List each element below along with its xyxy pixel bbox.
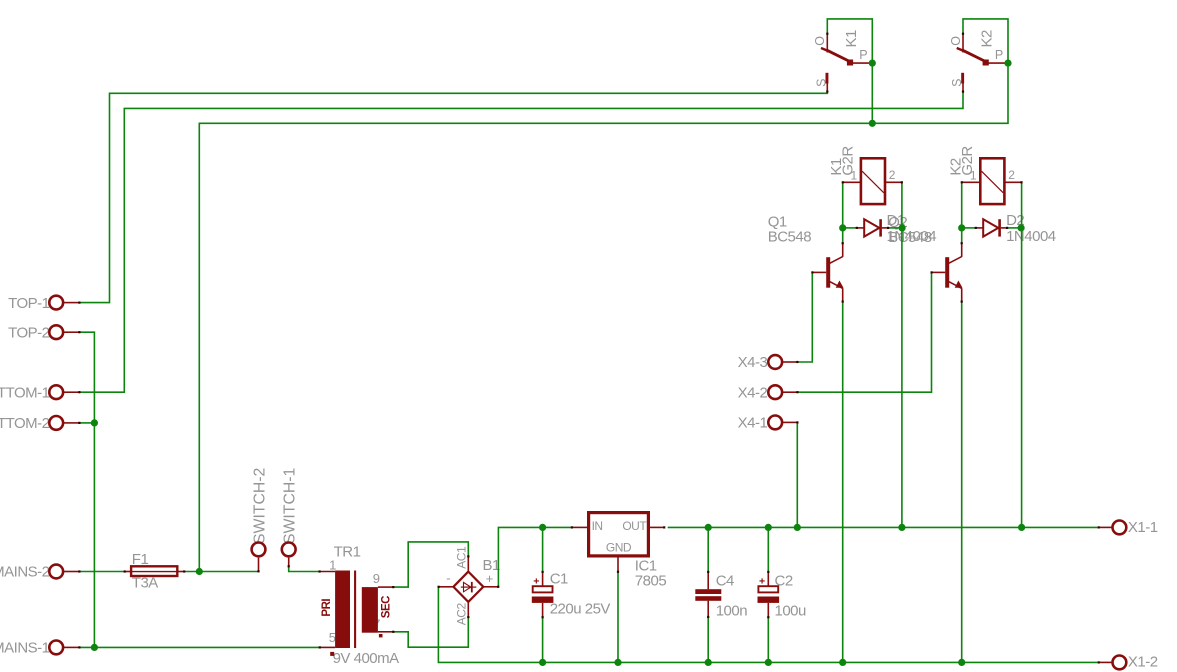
svg-text:X1-1: X1-1 [1128,519,1158,536]
transformer TR1 primary winding [335,571,350,649]
svg-text:100n: 100n [716,603,748,620]
wire Q1 collector to D1 anode node [842,182,844,243]
capacitor C4 plates [695,589,721,594]
svg-text:TR1: TR1 [334,544,361,561]
capacitor C4 leads [707,527,709,572]
svg-text:TOP-1: TOP-1 [8,295,50,312]
wire K1 contact frame O to P [827,19,872,63]
wire net TOP-1: TOP-1 pin up and across to K1 contact S [79,92,827,303]
pin SWITCH-1 [282,543,296,557]
svg-text:O: O [949,36,963,46]
junction K1 contact P [869,60,876,67]
junction D2 anode node [958,224,965,231]
pin SWITCH-2 [252,543,266,557]
svg-text:2: 2 [1008,168,1015,182]
wire X4-1 pin down to +V rail [796,422,798,527]
svg-text:AC2: AC2 [455,603,469,626]
connector pin X4-1 [768,416,782,430]
K2 coil pin 1 stub [962,181,980,183]
svg-text:PRI: PRI [321,599,333,617]
wire net BOTTOM-1: across top to K2 contact S [79,92,963,393]
TR1 core [354,571,356,649]
svg-text:X4-1: X4-1 [738,415,768,432]
Q2 base pin [931,271,945,273]
connector pin TOP-2 [49,325,63,339]
diode D1 [843,227,857,229]
junction D2 cathode node [1018,224,1025,231]
svg-text:P: P [995,48,1003,62]
svg-text:SEC: SEC [380,596,392,618]
svg-text:MAINS-1: MAINS-1 [0,640,50,657]
B1 plus pin stub [483,586,498,588]
capacitor C2 leads [767,527,769,572]
connector pin TOP-1 [49,296,63,310]
Q1 base pin [812,271,826,273]
K2 contact pole line to P [989,62,1006,64]
svg-text:1: 1 [329,558,336,573]
wire SWITCH-1 pin to TR1 pin 1 [289,567,319,572]
K2 contact arm [957,48,963,50]
wire K1 coil pin2 / D1 cathode node down to +V rail [901,182,903,527]
TR1 pin 5 stub [320,646,335,648]
svg-text:C1: C1 [550,570,568,587]
junction K2 coil node / rail [1018,524,1025,531]
svg-text:1: 1 [970,168,977,182]
svg-text:C4: C4 [716,573,734,590]
TR1 pin 5 polarity dot [330,652,334,656]
K1 coil pin 1 stub [843,181,861,183]
svg-text:K2: K2 [979,30,996,48]
svg-text:+: + [486,571,493,586]
fuse F1 [125,571,132,573]
junction X4-1 drop / rail [794,524,801,531]
junction C2 top / rail [765,524,772,531]
Q1 emitter with arrow [830,282,843,289]
wire fuse F1 to SWITCH-2 pin [184,571,259,573]
junction C4 top / rail [705,524,712,531]
wire MAINS-2 pin to fuse F1 [79,571,124,573]
connector pin BOTTOM-1 [49,385,63,399]
wire net fused-mains riser to relay contacts (wire3) [199,63,1008,571]
wire K2 coil pin2 / D2 cathode node down to +V rail [1021,182,1023,527]
svg-text:7805: 7805 [635,573,667,590]
svg-text:OUT: OUT [622,519,647,533]
connector pin X4-2 [768,385,782,399]
TR1 pin 9 stub [378,586,394,588]
B1 AC1 pin stub [467,556,469,571]
connector pin MAINS-1 [49,641,63,655]
IC1 GND pin stub [617,558,619,573]
wire Q2 emitter down to ground rail [961,302,963,663]
junction wire3 / K1 P drop [869,120,876,127]
svg-text:X4-3: X4-3 [738,354,768,371]
connector pin BOTTOM-2 [49,416,63,430]
connector pin X1-2 [1113,656,1127,670]
wire X4-3 pin to Q1 base [797,272,813,362]
K1 contact O pin [826,34,828,53]
wire K1 contact P drop to wire3 [871,63,873,123]
connector pin X1-1 [1113,521,1127,535]
wire bridge minus to ground rail [438,587,1097,663]
B1 AC2 pin stub [467,602,469,617]
junction C1 top / rail [539,524,546,531]
wire +V rail IC1 OUT to X1-1 [668,526,1098,528]
svg-text:TOP-2: TOP-2 [8,324,50,341]
wire net TOP-2/BOTTOM-2/MAINS-1 left vertical [79,332,94,647]
K1 contact S terminal [826,73,829,84]
wire bridge plus up to +V rail into IC1 IN [498,527,571,586]
svg-text:P: P [859,48,867,62]
wire K2 contact frame O to P [963,19,1008,63]
capacitor C1 plates (polarized) [533,586,553,592]
K2 contact S terminal [961,73,964,84]
diode D2 [962,227,976,229]
relay coil K1 G2R body [861,158,885,204]
svg-text:MAINS-2: MAINS-2 [0,564,50,581]
transistor Q2 base bar [945,257,949,288]
svg-text:SWITCH-2: SWITCH-2 [252,468,269,544]
svg-text:BOTTOM-1: BOTTOM-1 [0,384,50,401]
wire X4-2 pin to Q2 base [797,272,932,392]
capacitor C2 plates (polarized) [758,586,778,592]
svg-text:BC548: BC548 [768,229,812,246]
IC1 IN pin stub [572,526,587,528]
svg-text:BC548: BC548 [888,229,932,246]
svg-text:2: 2 [889,168,896,182]
wire TR1 pin 9 to bridge AC1 [394,542,469,587]
svg-text:SWITCH-1: SWITCH-1 [282,467,299,544]
K2 contact O pin [962,34,964,53]
K1 contact pole line to P [853,62,870,64]
relay coil K2 G2R body [980,158,1004,204]
capacitor C1 leads [542,527,544,572]
TR1 pin 7 stub [378,631,394,633]
wire Q1 emitter down to ground rail [842,302,844,663]
connector pin MAINS-2 [49,565,63,579]
K1 coil pin 2 stub [885,181,902,183]
wire MAINS-1 horizontal to TR1 pin 5 [79,646,320,648]
svg-text:X4-2: X4-2 [738,384,768,401]
svg-text:K1: K1 [843,30,860,48]
junction K1 coil node / rail [898,524,905,531]
IC1 OUT pin stub [650,526,664,528]
voltage regulator IC1 7805 body [589,513,649,556]
svg-text:AC1: AC1 [455,546,469,569]
junction C2 bottom / ground rail [765,659,772,666]
svg-text:100u: 100u [775,603,807,620]
svg-text:-: - [446,571,450,586]
B1 minus pin stub [438,586,453,588]
svg-text:BOTTOM-2: BOTTOM-2 [0,415,50,432]
junction K2 contact P [1004,60,1011,67]
junction fuse output / riser [196,568,203,575]
svg-text:X1-2: X1-2 [1128,654,1158,671]
K2 coil pin 2 stub [1004,181,1021,183]
wire Q2 collector to D2 anode node [961,182,963,243]
junction IC1 GND / ground rail [614,659,621,666]
transformer TR1 secondary winding [362,587,378,633]
Q2 emitter with arrow [949,282,962,289]
svg-text:220u 25V: 220u 25V [550,601,611,618]
Q1 collector [830,257,843,264]
junction BOTTOM-2 / left vertical [91,419,98,426]
wire BOTTOM-2 stub to left vertical [79,422,94,424]
K1 contact arm [821,48,827,50]
svg-text:9V 400mA: 9V 400mA [333,650,400,667]
wire TR1 pin 7 to bridge AC2 [394,617,469,647]
junction MAINS-1 / left vertical [91,644,98,651]
connector pin X4-3 [768,355,782,369]
junction D1 cathode node [899,224,906,231]
junction Q2 emitter / ground rail [958,659,965,666]
transistor Q1 base bar [826,257,830,288]
pin endpoint dots [78,302,80,304]
svg-text:1N4004: 1N4004 [1006,228,1056,245]
junction Q1 emitter / ground rail [839,659,846,666]
svg-text:O: O [813,36,827,46]
Q2 collector [949,257,962,264]
bridge rectifier B1 body [453,572,483,602]
svg-text:1: 1 [851,168,858,182]
svg-text:GND: GND [606,541,632,555]
svg-text:9: 9 [373,571,380,586]
TR1 pin 7 polarity dot [379,634,383,637]
svg-text:IN: IN [592,519,603,533]
svg-text:5: 5 [329,630,336,645]
TR1 pin 1 stub [319,571,335,573]
junction C1 bottom / ground rail [539,659,546,666]
junction D1 anode node [839,224,846,231]
junction C4 bottom / ground rail [705,659,712,666]
